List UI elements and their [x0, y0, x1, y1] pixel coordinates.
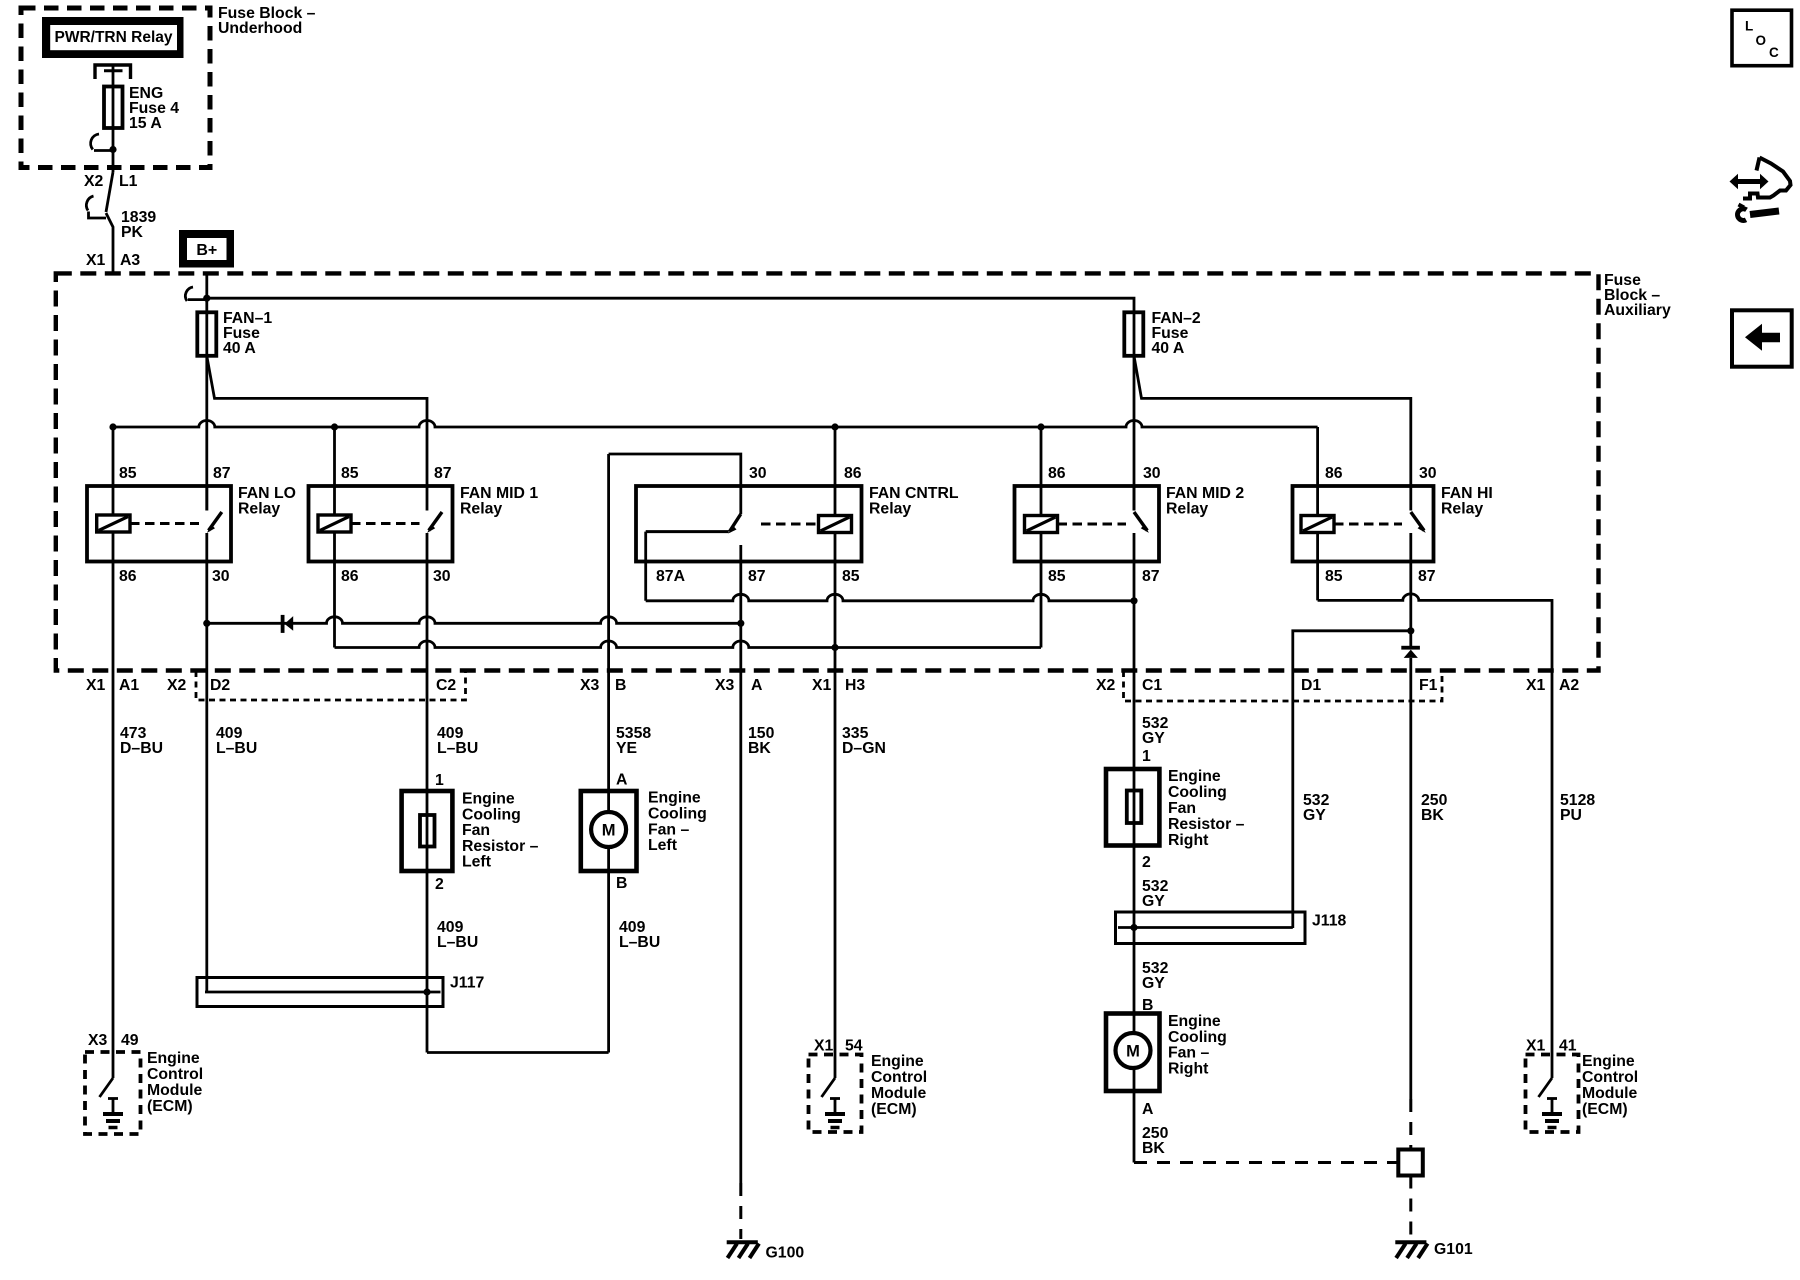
B+ label box: [179, 230, 234, 268]
svg-text:86: 86: [119, 568, 137, 585]
svg-text:(ECM): (ECM): [1582, 1101, 1628, 1118]
svg-text:30: 30: [1419, 465, 1437, 482]
ECM left ground: [103, 1099, 123, 1128]
LOC reference box: [1732, 10, 1792, 65]
svg-text:FAN MID 2: FAN MID 2: [1166, 485, 1244, 502]
motor left M: [591, 812, 626, 847]
wire resistor left to motor left return: [427, 1051, 609, 1054]
svg-text:A3: A3: [120, 252, 140, 269]
dashed ground path motor right to G101: [1134, 1161, 1398, 1164]
svg-text:Cooling: Cooling: [1168, 1029, 1227, 1046]
svg-text:FAN CNTRL: FAN CNTRL: [869, 485, 959, 502]
wire FAN MID 2 coil 86-85: [1040, 427, 1043, 648]
svg-text:87A: 87A: [656, 568, 685, 585]
svg-text:Fan: Fan: [462, 822, 490, 839]
wire FAN LO 87 stub: [205, 486, 208, 511]
svg-text:30: 30: [433, 568, 451, 585]
wire FAN-2 fuse down to FAN MID 2 30: [1133, 312, 1136, 510]
wire FAN MID 2 87 down to C1 resistor right: [1133, 533, 1136, 1163]
icon back arrow box: [1732, 310, 1792, 366]
ECM mid dashed box: [809, 1055, 862, 1133]
coil link FAN LO: [130, 522, 199, 525]
svg-text:87: 87: [1418, 568, 1436, 585]
svg-text:Control: Control: [147, 1066, 203, 1083]
svg-text:C: C: [1769, 45, 1779, 60]
wire B+ feed down to FAN-1 fuse: [205, 274, 208, 511]
wire FAN HI 85 to A2 5128 PU: [1318, 594, 1552, 1078]
wire FAN HI 87 down to diode: [1409, 533, 1412, 646]
svg-text:Resistor –: Resistor –: [462, 838, 539, 855]
svg-text:Relay: Relay: [1441, 501, 1483, 518]
svg-text:D1: D1: [1301, 677, 1321, 694]
svg-text:Fan –: Fan –: [648, 821, 689, 838]
wire 150 BK dashed to G100: [739, 1183, 742, 1239]
svg-text:40 A: 40 A: [223, 340, 256, 357]
svg-text:86: 86: [1325, 465, 1343, 482]
svg-text:L–BU: L–BU: [216, 740, 257, 757]
node FAN LO 30: [203, 620, 210, 627]
svg-text:PU: PU: [1560, 807, 1582, 824]
svg-text:L: L: [1745, 19, 1753, 34]
resistor right element: [1127, 791, 1142, 824]
wire FAN LO 30 down to D2 and J117: [205, 533, 208, 992]
svg-text:87: 87: [1142, 568, 1160, 585]
svg-text:X2: X2: [84, 173, 104, 190]
icon part with arrow and wrench: [1730, 158, 1791, 221]
G101 junction square: [1398, 1150, 1423, 1176]
node B+ junction: [203, 295, 210, 302]
svg-text:GY: GY: [1142, 893, 1165, 910]
node FAN HI 87 diode top: [1407, 627, 1414, 634]
wire FAN CNTRL coil 86-85 to H3: [834, 427, 837, 1078]
wire FAN MID 2 30 stub: [1133, 486, 1136, 511]
wire FAN MID 1 30 down to C2 resistor: [426, 533, 429, 1053]
svg-text:L1: L1: [119, 173, 138, 190]
svg-text:85: 85: [119, 465, 137, 482]
svg-text:GY: GY: [1142, 730, 1165, 747]
svg-text:X1: X1: [812, 677, 832, 694]
svg-text:87: 87: [213, 465, 231, 482]
coil link FAN CNTRL: [761, 523, 819, 526]
svg-text:Module: Module: [871, 1085, 926, 1102]
ECM right switch: [1539, 1078, 1553, 1097]
svg-text:Engine: Engine: [147, 1050, 200, 1067]
switch blade FAN CNTRL: [730, 514, 741, 532]
node coil return at FAN CNTRL 85: [831, 644, 838, 651]
clip at X2/L1: [86, 196, 93, 211]
wire FAN LO 30 net with diode to FAN CNTRL 87: [207, 617, 741, 623]
wire FAN LO coil 85-86 A1: [112, 427, 115, 1078]
wire coil supply bus: [113, 421, 1318, 428]
relay box FAN HI: [1293, 486, 1434, 562]
svg-text:A1: A1: [119, 677, 139, 694]
wire FAN CNTRL 87 down to A 150 BK: [739, 545, 742, 1183]
ECM right ground: [1542, 1099, 1562, 1128]
svg-text:FAN HI: FAN HI: [1441, 485, 1493, 502]
wire FAN MID 1 87 stub: [426, 486, 429, 511]
switch blade FAN LO: [209, 512, 222, 531]
svg-text:Control: Control: [871, 1069, 927, 1086]
svg-text:(ECM): (ECM): [147, 1098, 193, 1115]
coil link FAN MID 2: [1058, 523, 1127, 526]
svg-text:Cooling: Cooling: [1168, 784, 1227, 801]
fuse FAN-1 40A: [197, 312, 216, 356]
svg-text:C1: C1: [1142, 677, 1162, 694]
svg-text:Right: Right: [1168, 832, 1209, 849]
coil link FAN HI: [1334, 523, 1402, 526]
coil FAN MID 1: [318, 515, 351, 532]
svg-text:L–BU: L–BU: [437, 740, 478, 757]
svg-text:YE: YE: [616, 740, 637, 757]
motor right box: [1106, 1014, 1160, 1092]
PWR/TRN Relay label box: [42, 17, 184, 58]
resistor right box: [1106, 769, 1159, 846]
svg-text:G101: G101: [1434, 1241, 1473, 1258]
motor right M: [1116, 1033, 1151, 1068]
svg-text:54: 54: [845, 1038, 863, 1055]
wire FAN MID 1 coil 85-86: [333, 427, 336, 648]
splice J117: [197, 978, 443, 1007]
svg-text:Cooling: Cooling: [648, 805, 707, 822]
svg-text:F1: F1: [1419, 677, 1438, 694]
svg-text:Resistor –: Resistor –: [1168, 816, 1245, 833]
svg-text:Module: Module: [1582, 1085, 1637, 1102]
node bus FAN LO coil: [109, 423, 116, 430]
ECM left dashed box: [85, 1052, 141, 1134]
svg-text:41: 41: [1559, 1038, 1577, 1055]
svg-text:Engine: Engine: [871, 1053, 924, 1070]
svg-text:Engine: Engine: [648, 790, 701, 807]
svg-text:2: 2: [1142, 854, 1151, 871]
svg-text:GY: GY: [1142, 975, 1165, 992]
svg-text:Right: Right: [1168, 1060, 1209, 1077]
svg-text:BK: BK: [1142, 1140, 1165, 1157]
fuse FAN-2 40A: [1124, 312, 1143, 356]
svg-text:30: 30: [212, 568, 230, 585]
ECM mid ground: [825, 1099, 845, 1128]
svg-text:49: 49: [121, 1032, 139, 1049]
svg-text:X1: X1: [86, 252, 106, 269]
ground G100: [727, 1242, 759, 1258]
resistor left box: [402, 791, 453, 871]
svg-text:87: 87: [748, 568, 766, 585]
ECM right dashed box: [1526, 1055, 1579, 1133]
svg-text:Auxiliary: Auxiliary: [1604, 302, 1671, 319]
svg-text:Engine: Engine: [1582, 1053, 1635, 1070]
svg-text:1: 1: [1142, 748, 1151, 765]
relay box FAN MID 1: [309, 486, 453, 562]
svg-text:M: M: [1126, 1043, 1140, 1061]
wire 1839 PK to X1 A3: [106, 213, 113, 274]
svg-text:B+: B+: [196, 242, 217, 259]
svg-text:2: 2: [435, 876, 444, 893]
wire FAN CNTRL 30 loop from motor feed: [609, 454, 741, 514]
svg-text:85: 85: [842, 568, 860, 585]
svg-text:Left: Left: [462, 854, 492, 871]
wire FAN-2 fuse jog to FAN HI 30: [1134, 356, 1411, 486]
svg-text:X1: X1: [814, 1038, 834, 1055]
svg-text:Relay: Relay: [460, 501, 502, 518]
wire 5358 YE motor left feed: [607, 454, 610, 1053]
svg-text:A: A: [751, 677, 762, 694]
svg-text:A: A: [616, 772, 627, 789]
svg-text:85: 85: [341, 465, 359, 482]
ground G101: [1395, 1242, 1427, 1258]
svg-text:Engine: Engine: [462, 791, 515, 808]
svg-text:X1: X1: [1526, 1038, 1546, 1055]
svg-text:Engine: Engine: [1168, 1013, 1221, 1030]
node bus FAN MID 1 coil: [331, 423, 338, 430]
svg-text:A: A: [1142, 1101, 1153, 1118]
svg-text:30: 30: [1143, 465, 1161, 482]
node bus FAN MID 2 coil: [1037, 423, 1044, 430]
wire D1 branch from FAN HI 87: [1293, 631, 1411, 928]
svg-text:1: 1: [435, 772, 444, 789]
svg-text:X3: X3: [715, 677, 735, 694]
svg-text:H3: H3: [845, 677, 865, 694]
node bus FAN CNTRL coil: [831, 423, 838, 430]
svg-text:B: B: [615, 677, 626, 694]
wire jog X2/L1: [106, 172, 113, 212]
switch blade FAN MID 2: [1134, 512, 1147, 531]
coil FAN CNTRL: [819, 516, 852, 533]
coil FAN HI: [1301, 516, 1334, 533]
ECM mid switch: [822, 1078, 836, 1097]
svg-text:B: B: [1142, 997, 1153, 1014]
svg-text:86: 86: [1048, 465, 1066, 482]
svg-text:L–BU: L–BU: [619, 934, 660, 951]
svg-text:O: O: [1756, 33, 1767, 48]
fuse block underhood dashed box: [21, 8, 210, 168]
svg-text:D2: D2: [210, 677, 230, 694]
svg-text:X1: X1: [1526, 677, 1546, 694]
svg-text:40 A: 40 A: [1152, 340, 1185, 357]
svg-text:Control: Control: [1582, 1069, 1638, 1086]
svg-text:FAN LO: FAN LO: [238, 485, 296, 502]
diode on FAN HI 87 to ground: [1401, 646, 1420, 650]
svg-text:15 A: 15 A: [129, 115, 162, 132]
node ENG fuse output: [109, 146, 116, 153]
svg-text:86: 86: [341, 568, 359, 585]
diode D on 30 net: [281, 615, 285, 633]
svg-text:Fan –: Fan –: [1168, 1045, 1209, 1062]
svg-text:30: 30: [749, 465, 767, 482]
svg-text:BK: BK: [1421, 807, 1444, 824]
wire 250 BK F1 down: [1409, 658, 1412, 1099]
ENG fuse F4: [104, 87, 123, 129]
svg-text:Relay: Relay: [238, 501, 280, 518]
svg-text:Left: Left: [648, 837, 678, 854]
svg-text:PWR/TRN Relay: PWR/TRN Relay: [55, 29, 173, 46]
svg-text:BK: BK: [748, 740, 771, 757]
svg-text:D–BU: D–BU: [120, 740, 163, 757]
switch blade FAN MID 1: [429, 512, 442, 531]
svg-text:M: M: [602, 822, 616, 840]
wire FAN HI coil 86-85: [1316, 427, 1319, 600]
svg-text:C2: C2: [436, 677, 456, 694]
svg-text:87: 87: [434, 465, 452, 482]
wire B+ bus to FAN-2 fuse: [207, 298, 1134, 312]
wire coil return net 86/85 to H3: [335, 641, 1042, 648]
svg-text:D–GN: D–GN: [842, 740, 886, 757]
svg-text:J117: J117: [450, 975, 484, 992]
resistor left element: [420, 815, 435, 847]
terminal bracket above ENG fuse: [95, 65, 131, 79]
coil FAN MID 2: [1025, 516, 1058, 533]
wire FAN HI 30 stub: [1409, 486, 1412, 511]
svg-text:FAN MID 1: FAN MID 1: [460, 485, 538, 502]
wire FAN CNTRL 87A contact: [646, 530, 729, 533]
svg-text:PK: PK: [121, 224, 144, 241]
svg-text:Underhood: Underhood: [218, 20, 302, 37]
connector dashed box D2-C2: [196, 671, 466, 700]
svg-text:X2: X2: [167, 677, 187, 694]
dashed ground lead to G101 square: [1409, 1099, 1412, 1150]
motor left box: [581, 791, 637, 871]
svg-text:Relay: Relay: [1166, 501, 1208, 518]
svg-text:X3: X3: [88, 1032, 108, 1049]
svg-text:X2: X2: [1096, 677, 1116, 694]
svg-text:Module: Module: [147, 1082, 202, 1099]
svg-text:J118: J118: [1312, 913, 1346, 930]
svg-text:Fan: Fan: [1168, 800, 1196, 817]
wire 87A net to FAN MID 2 87: [646, 594, 1134, 601]
wire FAN-1 fuse jog to FAN MID 1 87: [207, 356, 427, 486]
node 87A net at FAN MID 2 87: [1130, 597, 1137, 604]
svg-text:Engine: Engine: [1168, 768, 1221, 785]
svg-text:Cooling: Cooling: [462, 806, 521, 823]
splice J118: [1116, 912, 1306, 944]
svg-text:85: 85: [1325, 568, 1343, 585]
ECM left switch: [100, 1078, 114, 1097]
coil link FAN MID 1: [351, 522, 420, 525]
svg-text:B: B: [616, 875, 627, 892]
svg-text:(ECM): (ECM): [871, 1101, 917, 1118]
relay box FAN CNTRL: [636, 486, 862, 562]
svg-text:GY: GY: [1303, 807, 1326, 824]
svg-text:Relay: Relay: [869, 501, 911, 518]
fuse block auxiliary dashed box: [56, 273, 1599, 670]
coil FAN LO: [97, 515, 130, 532]
relay box FAN MID 2: [1015, 486, 1160, 562]
relay box FAN LO: [87, 486, 231, 562]
clip at FAN-1 fuse top: [185, 287, 193, 301]
wire FAN CNTRL 87A down: [644, 532, 647, 601]
connector dashed box C1-F1: [1124, 671, 1443, 701]
svg-text:G100: G100: [766, 1245, 805, 1262]
svg-text:86: 86: [844, 465, 862, 482]
svg-text:L–BU: L–BU: [437, 934, 478, 951]
svg-text:X1: X1: [86, 677, 106, 694]
svg-text:85: 85: [1048, 568, 1066, 585]
switch blade FAN HI: [1411, 512, 1424, 531]
svg-text:X3: X3: [580, 677, 600, 694]
svg-text:A2: A2: [1559, 677, 1579, 694]
node FAN CNTRL 87: [737, 620, 744, 627]
wire ENG fuse vertical 1839 feed: [112, 66, 115, 172]
clip below ENG fuse: [91, 134, 99, 150]
